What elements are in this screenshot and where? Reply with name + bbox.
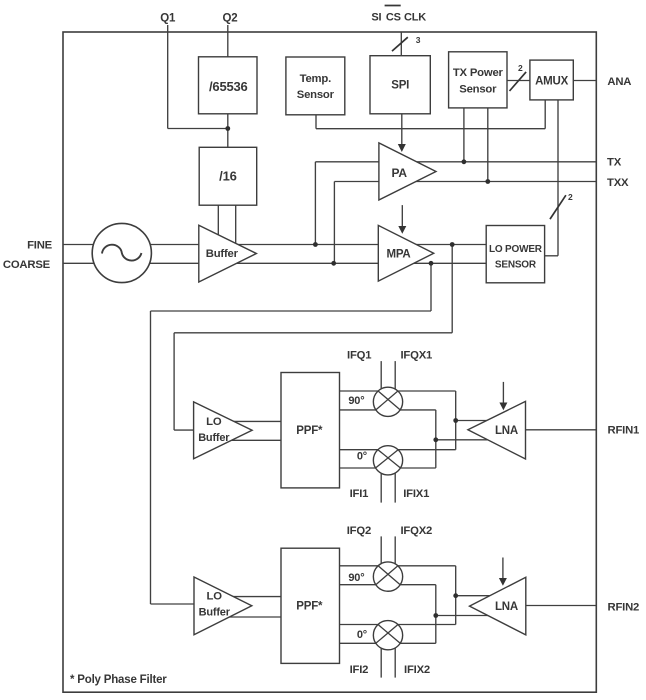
bus slash 2 on LO power sensor output	[550, 195, 566, 219]
junction dot TXX tap	[485, 179, 490, 184]
LO buffer2 triangle	[194, 577, 252, 635]
wire LNA1 out upper	[456, 420, 490, 422]
svg-text:LNA: LNA	[495, 425, 518, 437]
wire COARSE input	[63, 262, 199, 264]
junction dot TX tap	[462, 159, 467, 164]
svg-text:LO: LO	[206, 416, 222, 428]
wire LO buffer2 out upper	[228, 596, 281, 598]
SPI block	[370, 56, 430, 114]
svg-text:IFIX1: IFIX1	[403, 488, 429, 500]
wire AMUX left vertical	[544, 100, 546, 129]
wire RF vertical 2	[435, 410, 437, 468]
junction dot upper rail PA feed	[313, 242, 318, 247]
svg-text:RFIN2: RFIN2	[608, 601, 640, 613]
divider /16	[199, 147, 257, 205]
svg-text:LO POWER: LO POWER	[489, 244, 543, 255]
svg-text:TXX: TXX	[607, 177, 629, 189]
svg-text:PPF*: PPF*	[296, 601, 323, 613]
svg-text:IFQX2: IFQX2	[400, 525, 432, 537]
mixer M3	[373, 562, 402, 591]
wire LO tap upper vertical	[451, 245, 453, 333]
wire AMUX right vertical to LO power sensor	[557, 100, 559, 256]
junction dot lower rail PA feed	[331, 261, 336, 266]
svg-text:Sensor: Sensor	[297, 89, 335, 101]
junction dot LNA1 upper	[453, 418, 458, 423]
svg-text:SPI: SPI	[391, 80, 409, 92]
svg-text:TX: TX	[607, 157, 622, 169]
junction dot LNA2 lower	[433, 613, 438, 618]
wire mixer2 to RF node lower	[388, 467, 436, 469]
wire mixer3 to RF node upper	[388, 565, 456, 567]
TX power sensor block	[449, 52, 507, 108]
temp sensor block	[286, 57, 345, 115]
wire LO buffer1 out lower	[226, 439, 281, 441]
svg-text:MPA: MPA	[386, 248, 410, 260]
chip outer border	[63, 32, 596, 692]
wire RFIN2	[526, 605, 597, 607]
wire LNA1 out lower	[436, 439, 490, 441]
wire PPF2 to mixer4 upper	[340, 624, 389, 626]
wire Q2 vertical into /65536	[227, 25, 229, 57]
wire Q1 horizontal to divider node	[168, 128, 228, 130]
svg-text:IFQ1: IFQ1	[347, 349, 371, 361]
wire IFQX1 stub	[394, 361, 396, 402]
junction dot upper rail LO tap	[450, 242, 455, 247]
wire LNA2 gain arrow line	[502, 558, 504, 580]
svg-text:TX Power: TX Power	[453, 67, 504, 79]
wire PPF1 to mixer2 upper	[340, 449, 389, 451]
MPA amplifier triangle	[378, 225, 433, 281]
svg-text:Sensor: Sensor	[459, 84, 497, 96]
svg-text:2: 2	[568, 192, 573, 202]
wire LNA2 out upper	[456, 595, 490, 597]
wire LO buffer1 out upper	[228, 420, 281, 422]
wire PA lower feed vertical	[333, 182, 335, 264]
wire temp sensor down	[315, 115, 317, 129]
wire mixer2 to RF node upper	[388, 449, 456, 451]
wire IFIX1 stub	[394, 460, 396, 502]
wire TXX output line	[334, 181, 596, 183]
svg-text:3: 3	[416, 35, 421, 45]
svg-text:IFI2: IFI2	[350, 664, 369, 676]
svg-text:/65536: /65536	[209, 79, 248, 94]
junction dot LNA2 upper	[453, 593, 458, 598]
svg-text:SI: SI	[371, 12, 381, 24]
wire IFQ2 stub	[380, 536, 382, 576]
LNA2 amplifier triangle	[470, 577, 526, 635]
junction dot lower rail LO tap	[429, 261, 434, 266]
wire IFQ1 stub	[380, 361, 382, 402]
svg-text:LO: LO	[207, 590, 223, 602]
mixer M1	[373, 387, 402, 416]
LO power sensor block	[486, 226, 544, 283]
svg-text:PPF*: PPF*	[296, 425, 323, 437]
wire mixer4 to RF node lower	[388, 642, 436, 644]
bus slash 2 on AMUX input	[510, 72, 527, 91]
svg-text:Buffer: Buffer	[199, 606, 231, 618]
wire IFIX2 stub	[394, 635, 396, 677]
wire mixer1 to RF node lower	[388, 409, 436, 411]
wire IFI1 stub	[380, 460, 382, 502]
svg-text:0°: 0°	[357, 629, 367, 641]
arrowhead MPA gain	[398, 226, 406, 234]
wire TX power sensor to AMUX	[507, 80, 530, 82]
svg-text:Temp.: Temp.	[300, 73, 331, 85]
wire /16 output 1 to Buffer	[217, 205, 219, 240]
LO buffer1 triangle	[194, 402, 253, 459]
wire SPI input from top	[400, 32, 402, 56]
wire PPF2 to mixer4 lower	[340, 642, 389, 644]
svg-text:/16: /16	[219, 169, 236, 184]
wire SPI to PA gain	[401, 114, 403, 146]
wire LO buffer2 feed horizontal	[151, 603, 195, 605]
wire TX power sensor tap 1	[463, 108, 465, 162]
AMUX block	[530, 60, 573, 100]
wire LO tap lower vertical	[430, 263, 432, 311]
svg-text:90°: 90°	[348, 395, 364, 407]
wire LO buffer1 feed horizontal	[174, 429, 194, 431]
arrowhead LNA2 gain	[499, 578, 507, 586]
overline on CS	[385, 5, 401, 7]
PPF1 block	[281, 373, 340, 488]
wire PA upper feed vertical	[314, 162, 316, 245]
wire LO tap upper horizontal	[174, 332, 452, 334]
svg-text:Buffer: Buffer	[206, 248, 239, 260]
svg-text:AMUX: AMUX	[535, 76, 569, 88]
svg-text:IFI1: IFI1	[350, 488, 369, 500]
mixer M4	[373, 621, 402, 650]
svg-text:LNA: LNA	[495, 601, 518, 613]
svg-text:IFQX1: IFQX1	[400, 349, 432, 361]
svg-text:Buffer: Buffer	[198, 432, 230, 444]
wire PPF2 to mixer3 upper	[340, 565, 389, 567]
wire IFI2 stub	[380, 635, 382, 677]
wire AMUX to ANA	[573, 80, 596, 82]
wire Q1 vertical	[167, 25, 169, 129]
PPF2 block	[281, 548, 340, 663]
oscillator circle	[92, 223, 151, 282]
svg-text:* Poly Phase Filter: * Poly Phase Filter	[70, 674, 167, 686]
wire mixer1 to RF node upper	[388, 390, 456, 392]
wire LO buffer2 feed vertical	[150, 311, 152, 604]
LNA1 amplifier triangle	[468, 401, 526, 459]
svg-text:FINE: FINE	[27, 239, 53, 251]
svg-text:2: 2	[518, 63, 523, 73]
arrowhead PA gain	[398, 144, 406, 152]
wire LO upper rail buffer to LO power sensor	[230, 244, 486, 246]
divider /65536	[199, 57, 258, 114]
wire /16 output 2 to Buffer	[235, 205, 237, 248]
arrowhead LNA1 gain	[499, 403, 507, 411]
bus slash 3 on SPI input	[392, 37, 408, 51]
svg-text:IFQ2: IFQ2	[347, 525, 371, 537]
svg-text:COARSE: COARSE	[3, 259, 51, 271]
wire PPF1 to mixer1 upper	[340, 390, 389, 392]
wire PPF1 to mixer2 lower	[340, 467, 389, 469]
junction dot LNA1 lower	[433, 437, 438, 442]
wire LO lower rail buffer to LO power sensor	[230, 262, 486, 264]
wire temp sensor to AMUX	[316, 128, 545, 130]
wire LO tap lower horizontal	[151, 310, 432, 312]
svg-text:RFIN1: RFIN1	[608, 425, 640, 437]
wire to LO power sensor right edge	[545, 255, 558, 257]
wire IFQX2 stub	[394, 536, 396, 576]
svg-text:PA: PA	[392, 166, 408, 180]
svg-text:0°: 0°	[357, 450, 367, 462]
wire FINE input	[63, 244, 199, 246]
wire RF vertical 4	[435, 585, 437, 644]
wire TX output line	[315, 161, 596, 163]
wire TX power sensor tap 2	[487, 108, 489, 182]
wire mixer3 to RF node lower	[388, 584, 436, 586]
PA amplifier triangle	[379, 143, 436, 200]
svg-text:CLK: CLK	[404, 12, 426, 24]
svg-text:SENSOR: SENSOR	[495, 260, 537, 271]
wire RF vertical 1	[455, 391, 457, 450]
oscillator sine symbol	[102, 245, 141, 261]
svg-text:Q1: Q1	[160, 13, 176, 25]
wire LNA2 out lower	[436, 615, 490, 617]
mixer M2	[373, 446, 402, 475]
junction dot Q1/Q2	[225, 126, 230, 131]
svg-text:Q2: Q2	[223, 13, 238, 25]
wire LNA1 gain arrow line	[502, 382, 504, 404]
wire RFIN1	[526, 429, 597, 431]
wire RF vertical 3	[455, 566, 457, 625]
wire PPF2 to mixer3 lower	[340, 584, 389, 586]
buffer amplifier triangle	[199, 225, 257, 282]
wire MPA gain arrow line	[401, 205, 403, 227]
svg-text:IFIX2: IFIX2	[404, 664, 430, 676]
wire LO buffer1 feed vertical	[173, 333, 175, 430]
svg-text:ANA: ANA	[607, 76, 631, 88]
wire mixer4 to RF node upper	[388, 624, 456, 626]
wire LO buffer2 out lower	[226, 616, 281, 618]
wire /65536 to /16	[227, 114, 229, 148]
svg-text:CS: CS	[386, 12, 401, 24]
wire PPF1 to mixer1 lower	[340, 409, 389, 411]
svg-text:90°: 90°	[348, 572, 364, 584]
